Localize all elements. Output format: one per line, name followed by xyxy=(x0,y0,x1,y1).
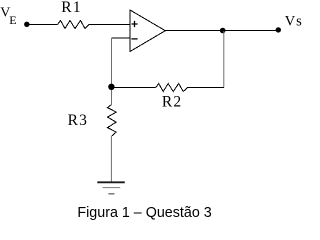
svg-text:Vs: Vs xyxy=(285,13,303,29)
svg-text:E: E xyxy=(9,13,16,27)
svg-text:R2: R2 xyxy=(162,93,183,110)
svg-text:R3: R3 xyxy=(68,112,89,129)
svg-text:Figura 1 – Questão 3: Figura 1 – Questão 3 xyxy=(77,205,211,221)
svg-text:R1: R1 xyxy=(61,0,82,16)
